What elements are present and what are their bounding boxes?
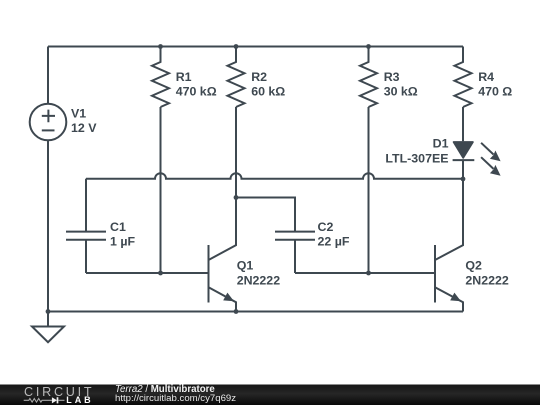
label D1 value: [385, 137, 448, 166]
svg-text:Q2: Q2: [465, 259, 482, 273]
svg-text:1 µF: 1 µF: [110, 235, 135, 249]
svg-text:30 kΩ: 30 kΩ: [384, 85, 418, 99]
svg-text:470 Ω: 470 Ω: [478, 85, 512, 99]
capacitor C2: [275, 232, 315, 273]
wire: V1 bottom lead to ground rail: [47, 140, 49, 311]
node: R3 bottom / Q2 base wire: [366, 271, 371, 276]
node: ground rail / Q1 emitter: [234, 309, 239, 314]
svg-text:http://circuitlab.com/cy7q69z: http://circuitlab.com/cy7q69z: [115, 393, 236, 404]
CircuitLab logo resistor zigzag and diode: [24, 397, 65, 403]
svg-text:Q1: Q1: [237, 259, 254, 273]
svg-text:V1: V1: [71, 107, 86, 121]
resistor R4: [455, 47, 472, 108]
label C1 value: [110, 220, 135, 249]
node: R1 bottom / Q1 base wire: [158, 271, 163, 276]
wire: long feedback wire from C1 top across to Q2 collector node (hops over R1,R2,R3 leads): [86, 173, 463, 179]
wire: D1 cathode to node: [462, 160, 464, 179]
wire: C1 bottom to Q1 base: [86, 272, 209, 274]
node: D1 cathode / Q2 collector / feedback wire: [461, 177, 466, 182]
resistor R3: [360, 47, 377, 108]
svg-text:R2: R2: [251, 70, 267, 84]
node: top rail / R2: [234, 44, 239, 49]
svg-text:470 kΩ: 470 kΩ: [176, 85, 217, 99]
svg-text:12 V: 12 V: [71, 121, 97, 135]
svg-text:22 µF: 22 µF: [318, 235, 350, 249]
wire: R3 bottom lead: [368, 107, 370, 273]
label Q2 value: [465, 259, 509, 288]
wire: V1 top lead: [47, 47, 49, 105]
ground symbol: [32, 312, 64, 343]
wire: R2 bottom lead to node at Q1 collector: [235, 107, 237, 198]
node: top rail / R3: [366, 44, 371, 49]
node: R2 bottom / Q1 collector / C2: [234, 195, 239, 200]
resistor R1: [152, 47, 169, 108]
label R4 value: [478, 70, 512, 99]
svg-text:2N2222: 2N2222: [465, 274, 509, 288]
footer bar: [0, 385, 540, 405]
label R1 value: [176, 70, 217, 99]
label C2 value: [318, 220, 350, 249]
capacitor C1: [66, 179, 106, 273]
resistor R2: [228, 47, 245, 108]
label R2 value: [251, 70, 285, 99]
wire: node at R2 bottom to C2 top: [236, 198, 295, 232]
node: ground rail / V1: [46, 309, 51, 314]
svg-text:C1: C1: [110, 220, 126, 234]
svg-text:R3: R3: [384, 70, 400, 84]
transistor Q2: [435, 179, 463, 312]
svg-text:C2: C2: [318, 220, 334, 234]
svg-text:R4: R4: [478, 70, 494, 84]
wire: bottom ground rail: [48, 311, 463, 313]
label V1 value: [71, 107, 97, 136]
svg-text:60 kΩ: 60 kΩ: [251, 85, 285, 99]
wire: C2 bottom to Q2 base: [295, 272, 435, 274]
voltage source V1: [30, 104, 67, 141]
label R3 value: [384, 70, 418, 99]
node: top rail / R1: [158, 44, 163, 49]
svg-text:R1: R1: [176, 70, 192, 84]
wire: R1 bottom lead: [160, 107, 162, 273]
wire: R4 bottom lead to LED D1: [462, 107, 464, 141]
svg-text:2N2222: 2N2222: [237, 274, 281, 288]
svg-text:LAB: LAB: [66, 395, 93, 405]
svg-text:LTL-307EE: LTL-307EE: [385, 151, 448, 165]
svg-text:D1: D1: [433, 137, 449, 151]
label Q1 value: [237, 259, 281, 288]
transistor Q1: [209, 198, 237, 312]
LED D1: [453, 142, 501, 176]
wire: top rail: [48, 46, 463, 48]
